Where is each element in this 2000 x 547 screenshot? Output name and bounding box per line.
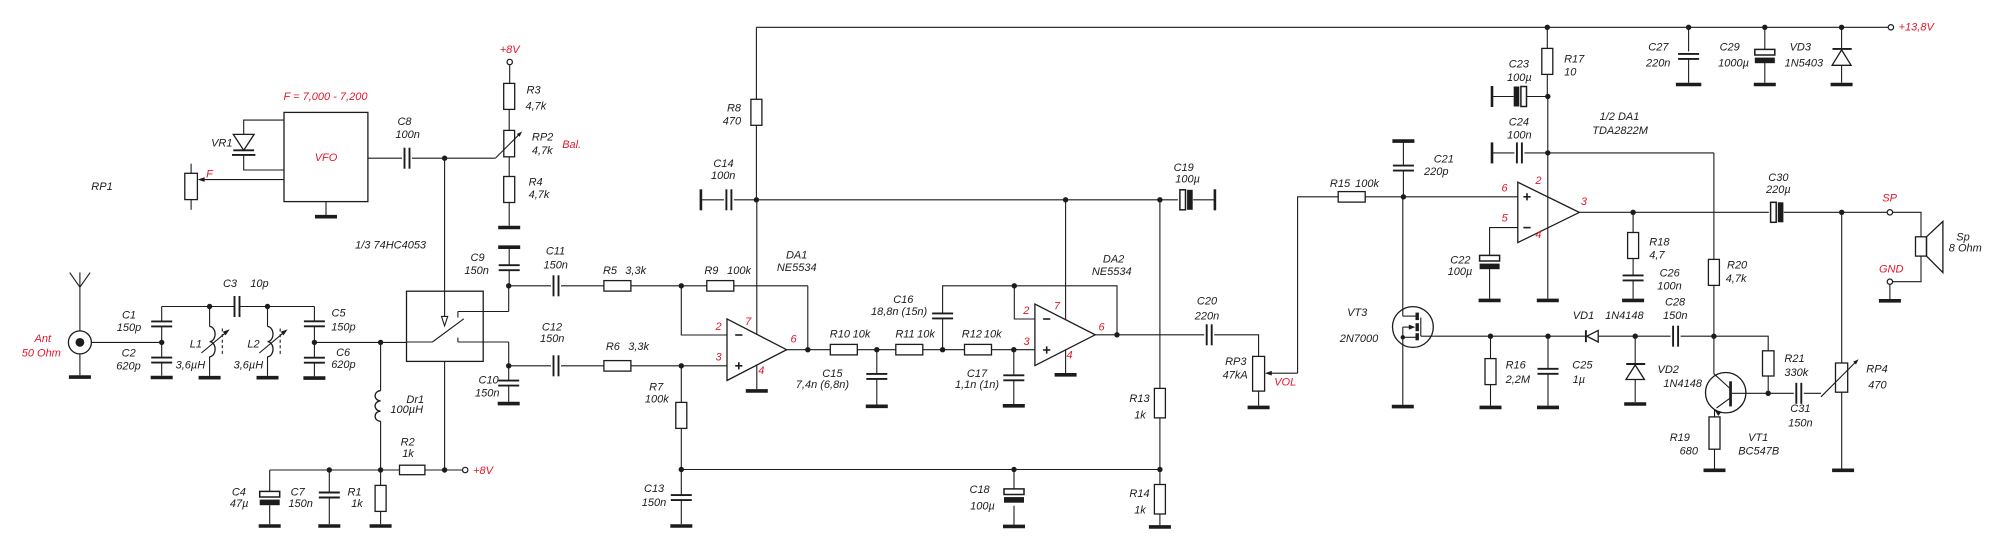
wire C2 bottom	[161, 363, 163, 376]
svg-text:150n: 150n	[288, 498, 312, 510]
svg-text:4,7k: 4,7k	[1726, 273, 1747, 285]
node C10/C12	[506, 363, 511, 368]
wire R2 to +8V terminal	[425, 469, 463, 471]
capacitor C25	[1538, 369, 1559, 374]
label VOL	[1274, 377, 1296, 389]
label L1	[176, 339, 206, 372]
wire C24 node to R20 corner	[1548, 152, 1714, 154]
wire node to DA1 pin3	[681, 365, 727, 367]
ground DA2 pin4	[1055, 373, 1077, 377]
svg-text:DA1: DA1	[786, 249, 807, 261]
resistor R19	[1709, 417, 1720, 449]
svg-text:C5: C5	[332, 307, 347, 319]
label C25	[1572, 359, 1593, 386]
svg-text:330k: 330k	[1784, 367, 1808, 379]
arrow RP3 wiper	[1265, 371, 1298, 376]
wire VD3 to ground	[1841, 65, 1843, 82]
node C23/R17	[1545, 94, 1550, 99]
arrow L1 adjustable	[201, 329, 229, 353]
node C27	[1686, 25, 1691, 30]
label C10	[475, 375, 500, 400]
wire filter rail left	[162, 306, 234, 308]
svg-text:3,6µH: 3,6µH	[176, 360, 206, 372]
wire end to C14	[701, 199, 724, 201]
capacitor C26	[1623, 275, 1644, 280]
ground VD3	[1831, 83, 1853, 87]
wire TDA pin5 to C22	[1490, 228, 1518, 256]
pin 3 TDA	[1581, 196, 1588, 208]
wire C1 top	[161, 307, 163, 322]
svg-text:1µ: 1µ	[1573, 374, 1585, 386]
svg-text:4: 4	[1535, 229, 1541, 241]
label VD2	[1657, 364, 1702, 390]
svg-text:R6: R6	[606, 341, 621, 353]
svg-text:DA2: DA2	[1103, 254, 1124, 266]
wire C16 node to R12	[943, 349, 965, 351]
wire to DA2 pin3	[1014, 349, 1035, 351]
node TDA out/R18	[1630, 210, 1635, 215]
svg-text:50 Ohm: 50 Ohm	[22, 347, 61, 359]
label R16	[1505, 359, 1531, 386]
svg-text:R14: R14	[1129, 488, 1149, 500]
svg-text:1000µ: 1000µ	[1718, 58, 1749, 70]
ground C21 (inverted)	[1392, 139, 1414, 143]
wire +8V rail left	[270, 469, 400, 471]
wire C19 to end	[1193, 199, 1215, 201]
wire top rail right	[1545, 26, 1888, 28]
label C3	[223, 278, 269, 290]
wire rail to VD3	[1841, 27, 1843, 48]
wire TDA out to C30 (crosses R20 line)	[1633, 211, 1769, 213]
svg-text:1N4148: 1N4148	[1605, 310, 1644, 322]
connector Ant 50 Ohm	[68, 331, 91, 354]
svg-text:100k: 100k	[727, 265, 751, 277]
svg-text:NE5534: NE5534	[777, 262, 817, 274]
svg-text:C28: C28	[1665, 297, 1686, 309]
wire R16 node to C25 node	[1491, 335, 1549, 337]
wire C15 to ground	[876, 379, 878, 404]
label R18	[1649, 236, 1670, 261]
svg-text:620p: 620p	[331, 359, 355, 371]
node C18	[1011, 467, 1016, 472]
terminal +8V top	[507, 59, 512, 64]
label C23	[1507, 58, 1532, 84]
wire VD2 node to C28	[1635, 335, 1670, 337]
label 74HC4053	[355, 240, 427, 252]
svg-text:VD2: VD2	[1657, 364, 1678, 376]
svg-text:100n: 100n	[1657, 281, 1681, 293]
wire R20 to gate line node	[1713, 285, 1715, 336]
ground C7	[318, 524, 340, 528]
svg-text:2: 2	[1022, 305, 1029, 317]
arrow F tune to RP1	[198, 177, 284, 182]
svg-text:4,7k: 4,7k	[529, 189, 550, 201]
label Sp	[1949, 231, 1982, 254]
wire node to C10	[508, 366, 510, 381]
label C7	[288, 487, 312, 510]
wire VFO to VR1 anode	[244, 120, 284, 134]
wire node to C17	[1013, 350, 1015, 376]
svg-text:R10: R10	[830, 329, 851, 341]
antenna Ant	[70, 272, 90, 331]
capacitor C15	[866, 374, 887, 379]
resistor R15	[1338, 192, 1365, 203]
label F range	[284, 91, 369, 103]
svg-text:220n: 220n	[1194, 311, 1219, 323]
ground C17	[1003, 404, 1025, 408]
wire C25 to ground	[1547, 374, 1549, 406]
wire node to C25	[1547, 336, 1549, 368]
wire to switch input	[381, 341, 407, 343]
svg-text:+13,8V: +13,8V	[1899, 22, 1936, 34]
label R11	[895, 329, 935, 341]
wire C9 to node	[508, 270, 510, 286]
label DA2	[1092, 254, 1132, 278]
label R4	[529, 177, 550, 201]
node R16	[1488, 334, 1493, 339]
wire DA1 pin4	[756, 365, 758, 389]
ground VT3	[1392, 405, 1414, 409]
terminal GND	[1887, 279, 1892, 284]
wire DA2 out to C20	[1117, 334, 1204, 336]
svg-text:C26: C26	[1660, 268, 1681, 280]
ground C15	[866, 404, 888, 408]
svg-text:C27: C27	[1648, 42, 1669, 54]
wire DA1 pin7 supply	[756, 200, 758, 335]
wire node to TDA pin6	[1403, 196, 1517, 198]
capacitor C8	[405, 148, 410, 169]
svg-text:C20: C20	[1197, 295, 1218, 307]
svg-text:100k: 100k	[645, 393, 669, 405]
svg-text:C8: C8	[397, 116, 412, 128]
label F	[206, 169, 214, 181]
inductor Dr1 choke	[375, 342, 381, 470]
label C1	[117, 309, 141, 334]
wire end to C24	[1492, 152, 1514, 154]
terminal +8V right	[463, 467, 468, 472]
wire R7 to bias line	[680, 428, 682, 469]
label C22	[1448, 254, 1473, 278]
wire VD1 to VD2 node	[1598, 335, 1635, 337]
svg-text:L1: L1	[190, 339, 202, 351]
node C15	[874, 347, 879, 352]
ground R19	[1704, 468, 1726, 472]
resistor R8	[751, 99, 762, 125]
svg-text:VR1: VR1	[211, 138, 232, 150]
resistor R7	[676, 402, 687, 428]
wire supply line DA1-DA2	[756, 199, 1065, 201]
label C17	[955, 368, 999, 391]
wire node to R7	[680, 366, 682, 403]
node C16	[940, 347, 945, 352]
label C18	[970, 484, 995, 512]
svg-text:VD1: VD1	[1573, 310, 1594, 322]
wire C6 bottom	[313, 363, 315, 377]
node DA2 pin7 supply	[1063, 197, 1068, 202]
wire C23 to node	[1527, 96, 1548, 98]
arrow L2 adjustable	[259, 329, 287, 353]
label C24	[1507, 117, 1531, 142]
capacitor C12	[554, 355, 559, 376]
switch contact lower	[458, 338, 509, 366]
label R12	[962, 329, 1002, 341]
wire C22 to ground	[1489, 269, 1491, 299]
wire node B to Dr1 node	[314, 341, 380, 343]
svg-text:F = 7,000 - 7,200: F = 7,000 - 7,200	[284, 91, 369, 103]
ground VD2	[1624, 402, 1646, 406]
ground C13	[670, 524, 692, 528]
ground RP4	[1832, 468, 1854, 472]
svg-text:C31: C31	[1790, 403, 1810, 415]
node R21/C31/base	[1766, 391, 1771, 396]
wire C10 to ground	[508, 386, 510, 402]
svg-text:10k: 10k	[984, 329, 1002, 341]
svg-text:VD3: VD3	[1790, 42, 1812, 54]
svg-text:3: 3	[1581, 196, 1588, 208]
svg-text:100µH: 100µH	[390, 404, 423, 416]
label C15	[796, 368, 850, 391]
label C28	[1663, 297, 1687, 322]
svg-text:VT1: VT1	[1748, 432, 1768, 444]
label R7	[645, 382, 669, 406]
capacitor C5	[304, 321, 325, 326]
wire VT1 emitter to R19	[1714, 410, 1716, 417]
capacitor C13	[671, 495, 692, 500]
wire C27 to ground	[1688, 59, 1690, 82]
node R8/C14/pin7	[754, 197, 759, 202]
label +13,8V	[1899, 22, 1936, 34]
label C20	[1194, 295, 1219, 322]
label VR1	[211, 138, 232, 150]
svg-text:C30: C30	[1768, 172, 1789, 184]
wire R10 to C15 node	[857, 349, 877, 351]
pin 2 DA2	[1022, 305, 1029, 317]
svg-text:R15: R15	[1330, 178, 1351, 190]
node R1/Dr1	[378, 467, 383, 472]
wire node to C18	[1013, 470, 1015, 489]
pin 2 TDA	[1534, 175, 1541, 187]
svg-text:1N4148: 1N4148	[1663, 378, 1702, 390]
resistor R14	[1154, 485, 1165, 515]
wire node to SP terminal	[1842, 211, 1888, 213]
ground C6	[303, 376, 325, 380]
wire R1 to ground	[380, 511, 382, 524]
svg-text:150n: 150n	[1788, 417, 1812, 429]
dashed core L2	[279, 329, 281, 356]
ground L2	[257, 376, 279, 380]
resistor R10	[830, 344, 857, 355]
ground C9 (inverted)	[498, 245, 520, 249]
svg-text:1k: 1k	[402, 448, 414, 460]
label Dr1	[390, 394, 424, 416]
label C12	[540, 321, 564, 345]
op-amp U TDA2822M half	[1518, 182, 1580, 242]
wire C21 to node	[1402, 171, 1404, 197]
svg-text:100µ: 100µ	[1507, 72, 1532, 84]
svg-text:7,4n (6,8n): 7,4n (6,8n)	[796, 379, 850, 391]
ground C29	[1754, 83, 1776, 87]
svg-text:RP4: RP4	[1866, 364, 1887, 376]
svg-text:10: 10	[1564, 67, 1577, 79]
svg-text:Bal.: Bal.	[562, 139, 581, 151]
resistor R6	[604, 361, 631, 372]
svg-text:3,3k: 3,3k	[628, 341, 649, 353]
pin 7 DA1	[745, 316, 752, 328]
label R19	[1670, 432, 1699, 457]
wire rail to C27	[1688, 27, 1690, 51]
svg-text:150n: 150n	[543, 260, 567, 272]
svg-text:R5: R5	[603, 265, 618, 277]
ground C25	[1537, 406, 1559, 410]
svg-text:220p: 220p	[1423, 166, 1448, 178]
label VFO	[315, 152, 338, 164]
svg-text:VT3: VT3	[1347, 307, 1368, 319]
label C31	[1788, 403, 1812, 430]
label R17	[1564, 53, 1585, 78]
svg-text:C10: C10	[479, 375, 500, 387]
label R2	[401, 437, 415, 460]
label L2	[234, 339, 264, 372]
capacitor C31	[1796, 383, 1801, 404]
wire supply line to R13 node	[1066, 199, 1160, 201]
capacitor C14	[726, 189, 731, 210]
svg-text:150p: 150p	[331, 321, 355, 333]
wire DA2 output	[1095, 334, 1117, 336]
label VT1	[1738, 432, 1779, 457]
pin 7 DA2	[1054, 301, 1061, 313]
label C11	[543, 245, 567, 271]
wire C24 to node	[1524, 152, 1547, 154]
capacitor C24	[1517, 142, 1522, 163]
transistor VT1 BC547B	[1706, 373, 1769, 416]
wire rail to C29	[1764, 27, 1766, 49]
wire R14 to ground	[1159, 514, 1161, 525]
svg-text:100µ: 100µ	[1175, 174, 1200, 186]
svg-text:1/2 DA1: 1/2 DA1	[1600, 111, 1640, 123]
wire connector to node A	[91, 341, 161, 343]
wire C9 gnd lead	[508, 247, 510, 265]
pin 4 DA1	[758, 365, 764, 377]
resistor R20	[1708, 259, 1719, 285]
op-amp DA2 NE5534	[1035, 304, 1095, 366]
svg-text:4,7k: 4,7k	[526, 101, 547, 113]
label +8V right	[473, 465, 495, 477]
ground C26	[1622, 299, 1644, 303]
svg-text:NE5534: NE5534	[1092, 266, 1132, 278]
ground R4	[498, 226, 520, 230]
capacitor C20	[1207, 324, 1212, 345]
label DA1	[777, 249, 817, 274]
node C17/pin3 DA2	[1011, 347, 1016, 352]
wire C20 to RP3	[1214, 335, 1258, 357]
svg-text:BC547B: BC547B	[1738, 446, 1779, 458]
wire node to R18	[1632, 212, 1634, 232]
label +8V top	[500, 44, 522, 56]
svg-text:18,8n (15n): 18,8n (15n)	[871, 306, 928, 318]
node R7/C13/bias	[679, 467, 684, 472]
wire +8V to R3	[509, 65, 511, 84]
ground DA1 pin4	[746, 389, 768, 393]
svg-text:C24: C24	[1509, 117, 1529, 129]
label C4	[230, 487, 249, 510]
wire VFO to ground	[325, 202, 327, 215]
ground C18	[1003, 525, 1025, 529]
wire node to VD2	[1634, 336, 1636, 363]
wire node to C7	[328, 470, 330, 493]
capacitor C10	[498, 381, 519, 386]
svg-text:100µ: 100µ	[970, 501, 995, 513]
wire TDA output	[1579, 211, 1633, 213]
wire control node to switch	[444, 158, 446, 291]
resistor R18	[1628, 233, 1639, 259]
svg-text:R8: R8	[727, 103, 742, 115]
svg-text:470: 470	[723, 116, 742, 128]
potentiometer RP3	[1253, 356, 1265, 391]
capacitor C21	[1393, 166, 1414, 171]
svg-text:RP2: RP2	[532, 132, 553, 144]
svg-text:100k: 100k	[1355, 178, 1379, 190]
capacitor C23 (polarized)	[1514, 87, 1527, 107]
varicap VR1	[232, 134, 255, 155]
wire C12 to R6	[561, 365, 604, 367]
wire node to C15	[876, 350, 878, 374]
svg-text:1k: 1k	[1134, 504, 1146, 516]
svg-text:1N5403: 1N5403	[1785, 58, 1824, 70]
wire R4 to ground	[508, 203, 510, 226]
label R6	[606, 341, 650, 353]
wire supply to C19	[1160, 199, 1178, 201]
capacitor C1	[151, 321, 172, 326]
speaker Sp 8 Ohm	[1916, 221, 1943, 272]
svg-text:100n: 100n	[395, 129, 419, 141]
ground C2	[151, 376, 173, 380]
wire C23 node to C24 node	[1547, 97, 1549, 153]
svg-text:C25: C25	[1572, 359, 1593, 371]
ground R14	[1149, 525, 1171, 529]
wire C7 to ground	[328, 498, 330, 525]
label R14	[1129, 488, 1149, 516]
node R20/VT1 collector	[1711, 334, 1716, 339]
label 1/2 DA1	[1592, 111, 1648, 137]
open end C24	[1491, 142, 1494, 163]
label C30	[1765, 172, 1791, 196]
resistor R3	[504, 83, 515, 109]
svg-text:C18: C18	[970, 484, 991, 496]
node L1 top	[207, 304, 212, 309]
wire C5 top	[313, 307, 315, 322]
wire gnd to C21	[1402, 141, 1404, 166]
svg-text:C7: C7	[291, 487, 306, 499]
svg-text:C23: C23	[1509, 58, 1530, 70]
terminal SP	[1887, 210, 1892, 215]
node Dr1 top	[378, 340, 383, 345]
svg-text:Ant: Ant	[34, 333, 52, 345]
svg-text:3,3k: 3,3k	[625, 265, 646, 277]
capacitor C3	[235, 296, 240, 317]
ground C4	[259, 524, 281, 528]
capacitor C11	[554, 275, 559, 296]
wire R9 to feedback corner	[734, 285, 808, 287]
svg-text:R13: R13	[1129, 393, 1150, 405]
node feedback/pin2 DA2	[1012, 283, 1017, 288]
block switch 74HC4053	[407, 291, 484, 361]
svg-text:47kA: 47kA	[1223, 370, 1248, 382]
resistor R13	[1154, 388, 1165, 418]
terminal +13,8V	[1888, 25, 1893, 30]
svg-text:R2: R2	[401, 437, 415, 449]
wire R15 to node	[1365, 196, 1403, 198]
pin 6 DA2	[1098, 322, 1105, 334]
